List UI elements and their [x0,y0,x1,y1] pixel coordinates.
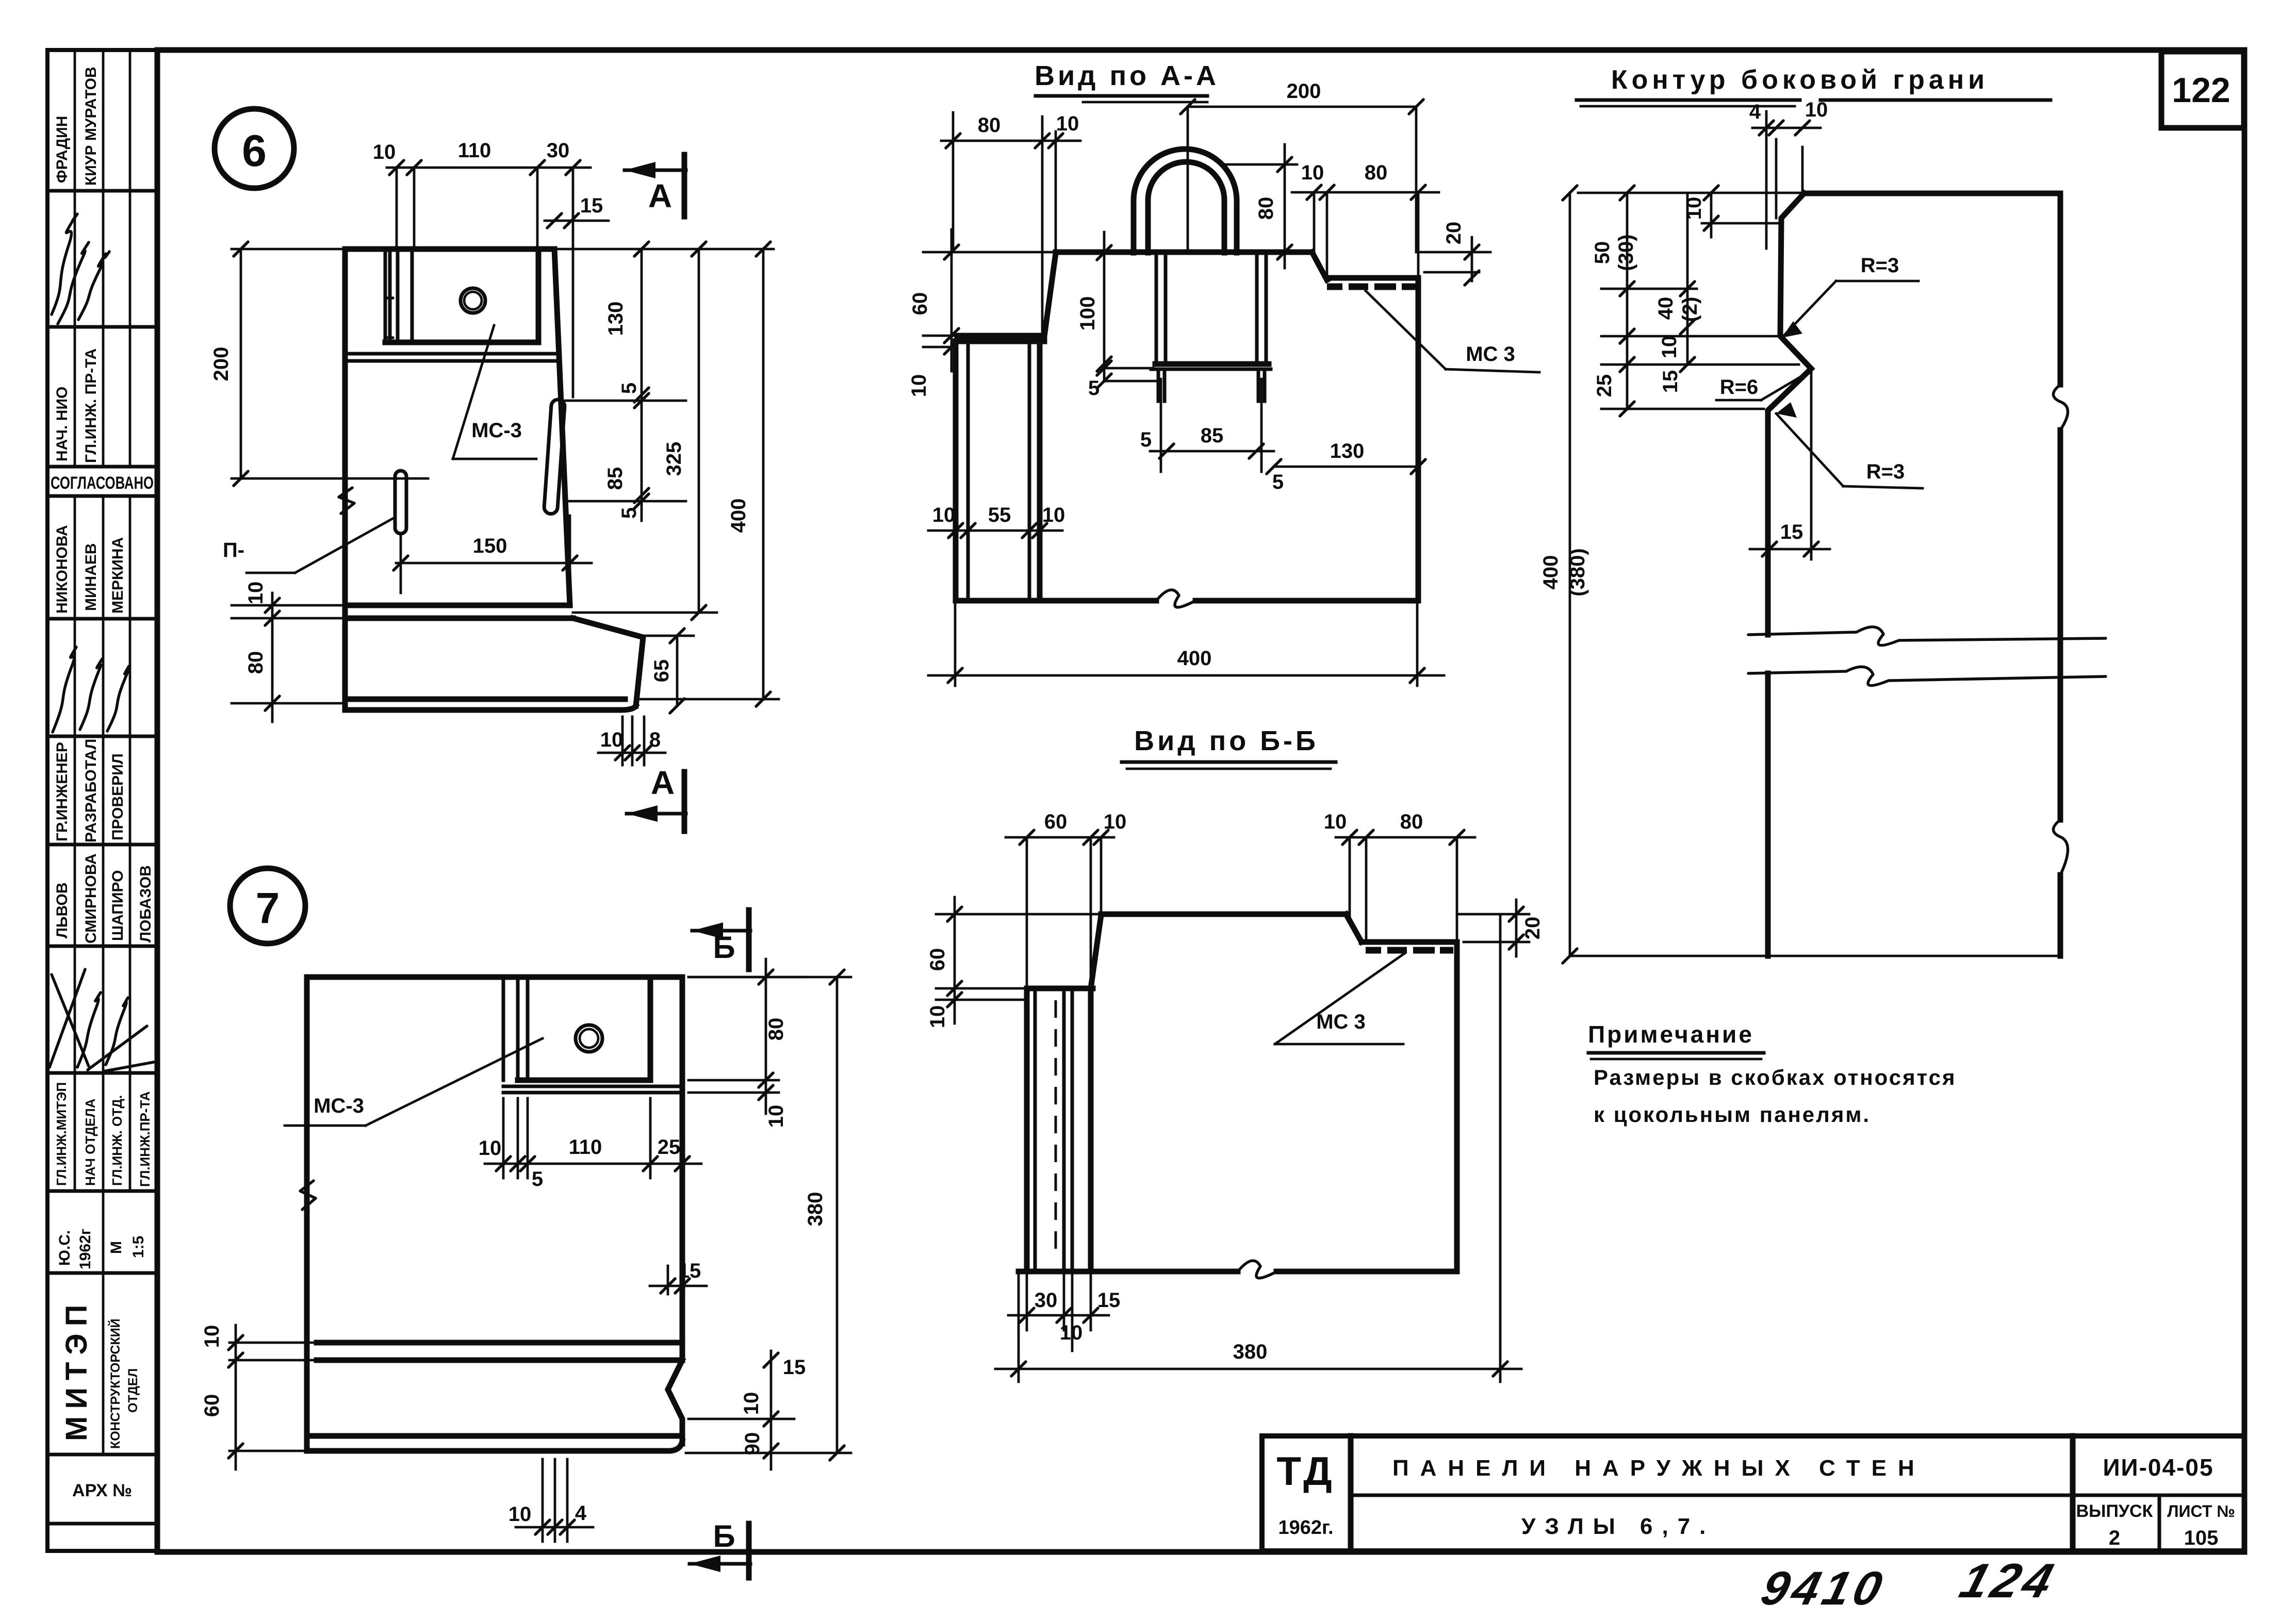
svg-text:200: 200 [210,347,233,382]
svg-text:УЗЛЫ 6,7.: УЗЛЫ 6,7. [1521,1514,1715,1539]
svg-text:МИТЭП: МИТЭП [60,1298,93,1441]
svg-text:10: 10 [244,582,267,605]
svg-text:15: 15 [1659,370,1682,393]
svg-text:10: 10 [765,1105,788,1128]
contour dims 4/10 top [1749,98,1828,249]
svg-text:380: 380 [1233,1341,1268,1363]
svg-text:ШАПИРО: ШАПИРО [109,870,126,941]
svg-text:65: 65 [650,659,673,683]
svg-text:110: 110 [458,139,491,162]
svg-text:85: 85 [1201,424,1224,447]
svg-text:10: 10 [1658,336,1681,359]
svg-text:РАЗРАБОТАЛ: РАЗРАБОТАЛ [83,739,100,842]
svg-text:15: 15 [1780,521,1803,543]
svg-text:4: 4 [575,1502,587,1525]
svg-text:ЛИСТ №: ЛИСТ № [2167,1502,2235,1520]
svg-text:10: 10 [1301,161,1324,184]
svg-text:Контур боковой грани: Контур боковой грани [1611,65,1989,95]
node 7 marker circle [230,868,305,944]
svg-text:R=3: R=3 [1861,254,1899,277]
svg-text:15: 15 [580,194,603,217]
svg-text:ЛОБАЗОВ: ЛОБАЗОВ [137,865,154,943]
A-A dims 10/55/10 left block [928,504,1065,538]
svg-text:ТД: ТД [1276,1448,1335,1494]
svg-text:АРХ №: АРХ № [72,1481,132,1500]
svg-text:5: 5 [618,507,641,519]
svg-text:5: 5 [1272,471,1284,493]
A-A dims 10/80 over ledge [1292,161,1439,280]
svg-text:R=6: R=6 [1720,376,1759,399]
svg-text:П-: П- [223,539,244,561]
A-A loop embedment below surface [1151,253,1271,401]
svg-text:Вид по А-А: Вид по А-А [1035,60,1219,91]
Б-Б dims 10/80 top-right [1324,811,1475,944]
svg-text:10: 10 [1060,1321,1083,1344]
node 6 dim 400 [639,242,779,706]
A-A dim 60/10 left [908,229,1056,397]
svg-text:80: 80 [765,1018,788,1041]
svg-text:400: 400 [727,499,750,533]
svg-text:ГР.ИНЖЕНЕР: ГР.ИНЖЕНЕР [54,742,71,841]
row5 [54,525,126,614]
A-A dim 5 small left [1088,361,1160,400]
row10 [54,1082,153,1187]
node 7 embedded bracket MC-3 [503,977,682,1093]
svg-text:1:5: 1:5 [130,1236,147,1258]
svg-text:(2): (2) [1679,297,1701,322]
svg-text:5: 5 [532,1168,543,1191]
svg-text:Вид по Б-Б: Вид по Б-Б [1134,725,1319,756]
svg-text:20: 20 [1521,917,1544,940]
node 7 break squiggle on left edge [300,1181,316,1210]
svg-text:7: 7 [256,884,280,932]
node 6 dim 15 [545,194,609,228]
svg-text:150: 150 [473,535,507,557]
svg-text:4: 4 [1749,101,1761,123]
node 6 right slot [544,399,565,514]
svg-text:124: 124 [1954,1554,2063,1608]
svg-text:130: 130 [1330,440,1365,462]
svg-text:110: 110 [569,1136,602,1159]
svg-text:90: 90 [741,1432,764,1456]
A-A dim 80 right of loop [1224,144,1297,268]
node 7 dims 10/60 bottom-left [201,1325,317,1469]
svg-text:МИНАЕВ: МИНАЕВ [83,543,100,611]
A-A dim 80/10 top-left [941,112,1080,334]
node 6 label П- with leader [223,519,392,573]
svg-text:100: 100 [1076,296,1099,331]
svg-text:1962г.: 1962г. [1278,1517,1333,1539]
node 6 marker circle [215,109,294,188]
Б-Б dims 30/10/15 bottom [1008,1271,1120,1351]
page number box 122 [2161,52,2244,128]
svg-text:130: 130 [604,302,627,336]
svg-text:10: 10 [1042,504,1065,526]
svg-text:5: 5 [1140,428,1152,451]
node 6 panel outline upper [345,249,643,710]
svg-text:60: 60 [909,292,931,316]
svg-text:R=3: R=3 [1866,460,1905,483]
node 6 left slot П [395,471,406,534]
node 6 break squiggle on left edge [339,488,354,514]
svg-text:2: 2 [2109,1527,2120,1549]
svg-text:80: 80 [1255,197,1277,220]
node 6 dims 10/8 bottom [598,717,665,765]
svg-text:5: 5 [618,383,641,394]
node 7 dim 380 right [686,970,851,1460]
svg-text:ЛЬВОВ: ЛЬВОВ [54,882,71,938]
svg-text:10: 10 [1056,112,1079,135]
svg-text:НАЧ. НИО: НАЧ. НИО [54,387,71,461]
A-A MC-3 plate dashes [1327,284,1416,290]
svg-text:55: 55 [988,504,1011,526]
svg-text:КОНСТРУКТОРСКИЙ: КОНСТРУКТОРСКИЙ [107,1318,123,1449]
contour label R=6 [1716,372,1808,400]
svg-text:60: 60 [926,948,949,971]
svg-text:ГЛ.ИНЖ.ПР-ТА: ГЛ.ИНЖ.ПР-ТА [137,1091,153,1187]
svg-text:10: 10 [373,141,396,163]
svg-text:А: А [651,764,675,801]
node 6 bracket hole [461,288,485,313]
svg-text:(30): (30) [1615,234,1637,271]
A-A label МС 3 with leader [1366,291,1539,372]
svg-text:80: 80 [978,114,1001,137]
A-A panel outline [956,252,1418,607]
svg-text:к цокольным панелям.: к цокольным панелям. [1594,1102,1871,1127]
node 6 dim 325 [554,242,774,620]
svg-text:30: 30 [547,139,570,162]
handwritten 9410 124 [1756,1554,2063,1615]
svg-text:Б: Б [713,930,735,965]
svg-text:А: А [648,177,672,214]
node 6 dim 200 left [210,242,428,486]
rotated texts rows 1-3 [54,67,100,463]
row6 signatures [53,647,129,732]
node 7 dims 15/10/90 bottom-right [688,1351,806,1469]
svg-text:80: 80 [1365,161,1388,184]
svg-text:20: 20 [1442,222,1465,245]
node 7 dims 10/5/110/25 below bracket [479,1098,701,1191]
svg-text:ОТДЕЛ: ОТДЕЛ [126,1368,140,1413]
svg-text:400: 400 [1177,647,1212,670]
svg-text:10: 10 [740,1392,763,1415]
svg-text:10: 10 [509,1503,532,1526]
node 6 right dims 130/5/85/5 [565,242,686,521]
svg-text:Примечание: Примечание [1588,1021,1754,1048]
node 6 top dimension line 10/110/30 [373,139,591,397]
svg-text:105: 105 [2184,1527,2219,1549]
svg-text:10: 10 [600,729,624,751]
svg-text:15: 15 [678,1260,701,1282]
svg-text:СМИРНОВА: СМИРНОВА [83,853,100,944]
title Вид по Б-Б [1122,725,1336,769]
svg-text:Ю.С.: Ю.С. [56,1230,73,1266]
svg-text:ГЛ.ИНЖ.МИТЭП: ГЛ.ИНЖ.МИТЭП [54,1082,69,1186]
svg-text:6: 6 [242,126,267,176]
svg-text:НАЧ ОТДЕЛА: НАЧ ОТДЕЛА [83,1098,98,1186]
svg-text:10: 10 [932,504,956,526]
node 7 bracket hole [576,1025,602,1052]
svg-text:9410: 9410 [1756,1561,1891,1614]
svg-text:325: 325 [663,442,685,476]
node 7 dims 80/10 right of bracket [688,959,805,1128]
svg-text:10: 10 [908,374,930,398]
row2 signatures [52,214,109,324]
svg-text:10: 10 [479,1137,502,1160]
row lines [47,189,157,193]
svg-text:200: 200 [1287,80,1321,103]
svg-text:Б: Б [713,1519,735,1553]
svg-text:ГЛ.ИНЖ. ПР-ТА: ГЛ.ИНЖ. ПР-ТА [83,349,100,463]
Б-Б dims 60/10 top-left [1006,811,1126,988]
title Вид по А-А [1035,60,1219,102]
node 7 dim 15 notch [650,1260,707,1294]
svg-text:60: 60 [1044,811,1068,833]
node 6 dim 150 [393,516,592,593]
contour dim 15 lower [1750,370,1830,559]
svg-text:10: 10 [201,1325,223,1348]
node 7 section mark Б top [692,910,750,969]
svg-text:МС 3: МС 3 [1316,1011,1366,1033]
svg-text:5: 5 [1088,377,1100,400]
svg-text:60: 60 [201,1394,223,1417]
contour label R=3 lower [1776,402,1923,488]
svg-text:ГЛ.ИНЖ. ОТД.: ГЛ.ИНЖ. ОТД. [109,1095,125,1186]
title Контур боковой грани [1577,65,2051,106]
svg-text:30: 30 [1035,1289,1058,1312]
svg-text:40: 40 [1654,297,1677,320]
svg-text:КИУР МУРАТОВ: КИУР МУРАТОВ [83,67,100,186]
node 7 section mark Б bottom [690,1519,750,1578]
note Примечание [1588,1021,1956,1127]
row9 signatures with cross [50,969,154,1071]
node 6 embedded bracket MC-3 [345,249,557,361]
A-A dim 400 bottom [928,601,1444,686]
Б-Б dim 380 bottom [995,914,1521,1382]
contour bottom line [1570,955,2060,957]
svg-text:380: 380 [804,1192,827,1227]
row11 [56,1229,147,1269]
column verticals per row group [75,50,130,1454]
svg-text:400: 400 [1539,555,1562,590]
svg-text:МС-3: МС-3 [314,1095,364,1117]
svg-text:МС 3: МС 3 [1466,343,1515,366]
svg-text:80: 80 [1400,811,1423,833]
A-A lifting loop [1134,149,1237,253]
Б-Б MC-3 plate dashes [1366,947,1453,954]
svg-text:80: 80 [244,651,267,674]
svg-text:15: 15 [1097,1289,1121,1312]
svg-text:ВЫПУСК: ВЫПУСК [2076,1501,2153,1521]
svg-text:10: 10 [1805,98,1828,121]
svg-text:10: 10 [1324,811,1347,833]
node 7 panel outline [307,977,682,1451]
A-A dim 200 top [1180,80,1423,253]
node 7 label МС-3 with leader [285,1038,543,1126]
A-A dims 5/85/5 [1140,379,1284,493]
svg-text:М: М [108,1241,125,1254]
contour dims 50(30)/25 left [1578,186,1804,416]
svg-text:ПРОВЕРИЛ: ПРОВЕРИЛ [109,753,126,840]
node 7 dims 10/4 below [509,1459,593,1542]
svg-text:ФРАДИН: ФРАДИН [54,116,71,183]
Б-Б dim 20 right [1457,900,1544,956]
A-A dim 100 [1076,232,1111,382]
contour dim 10 upper-left [1683,186,1779,237]
Б-Б label МС 3 with leader [1275,953,1405,1044]
svg-text:85: 85 [604,467,627,490]
svg-text:Размеры в скобках относятся: Размеры в скобках относятся [1594,1065,1957,1089]
svg-text:ИИ-04-05: ИИ-04-05 [2103,1454,2213,1481]
contour dim 400 (380) far left [1539,186,1589,963]
node 6 label МС-3 with leader [453,325,536,459]
contour label R=3 upper [1782,254,1918,338]
svg-text:10: 10 [1104,811,1127,833]
svg-text:СОГЛАСОВАНО: СОГЛАСОВАНО [51,473,154,493]
node 6 section mark A bottom [627,764,686,831]
Б-Б panel outline [1019,914,1457,1278]
svg-text:МС-3: МС-3 [471,419,522,442]
svg-text:122: 122 [2172,71,2230,110]
A-A dim 130 [1267,440,1425,474]
svg-text:(380): (380) [1566,548,1589,596]
svg-text:8: 8 [649,729,661,751]
node 6 dim 65 right [643,629,694,713]
contour profile outline [1768,193,2068,956]
svg-text:50: 50 [1591,241,1614,265]
svg-text:МЕРКИНА: МЕРКИНА [109,537,126,614]
A-A dim 20 right [1418,222,1490,285]
Б-Б dims 60/10 left side [926,897,1101,1028]
svg-text:НИКОНОВА: НИКОНОВА [54,525,71,614]
contour dims 40(2)/10/15 second column [1654,193,1701,393]
svg-text:ПАНЕЛИ НАРУЖНЫХ СТЕН: ПАНЕЛИ НАРУЖНЫХ СТЕН [1392,1456,1926,1481]
svg-text:1962г: 1962г [77,1229,94,1269]
svg-text:10: 10 [926,1005,949,1029]
node 6 section mark A top [625,155,686,217]
svg-text:25: 25 [658,1136,681,1159]
contour horizontal break lines [1748,627,2106,686]
node 6 dims 10/80 left bottom [232,582,345,722]
svg-text:25: 25 [1593,374,1616,398]
row7 [54,739,126,842]
svg-text:15: 15 [783,1356,806,1379]
row8 [54,853,154,944]
